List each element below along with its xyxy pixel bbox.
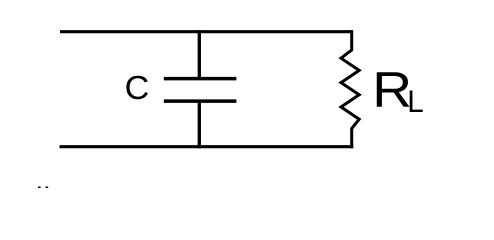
resistor R_L zigzag with leads bbox=[341, 30, 359, 148]
wire bottom rail bbox=[60, 145, 354, 148]
svg-text:C: C bbox=[125, 70, 150, 107]
wire top rail bbox=[60, 30, 352, 33]
node cropped text mark left bbox=[38, 187, 41, 189]
capacitor C bottom plate bbox=[164, 99, 237, 103]
capacitor C top plate bbox=[164, 77, 237, 81]
capacitor C top lead wire bbox=[198, 30, 201, 79]
svg-text:L: L bbox=[407, 83, 424, 119]
svg-text:R: R bbox=[372, 62, 412, 118]
capacitor C bottom lead wire bbox=[198, 101, 201, 148]
node cropped text mark right bbox=[46, 187, 49, 189]
